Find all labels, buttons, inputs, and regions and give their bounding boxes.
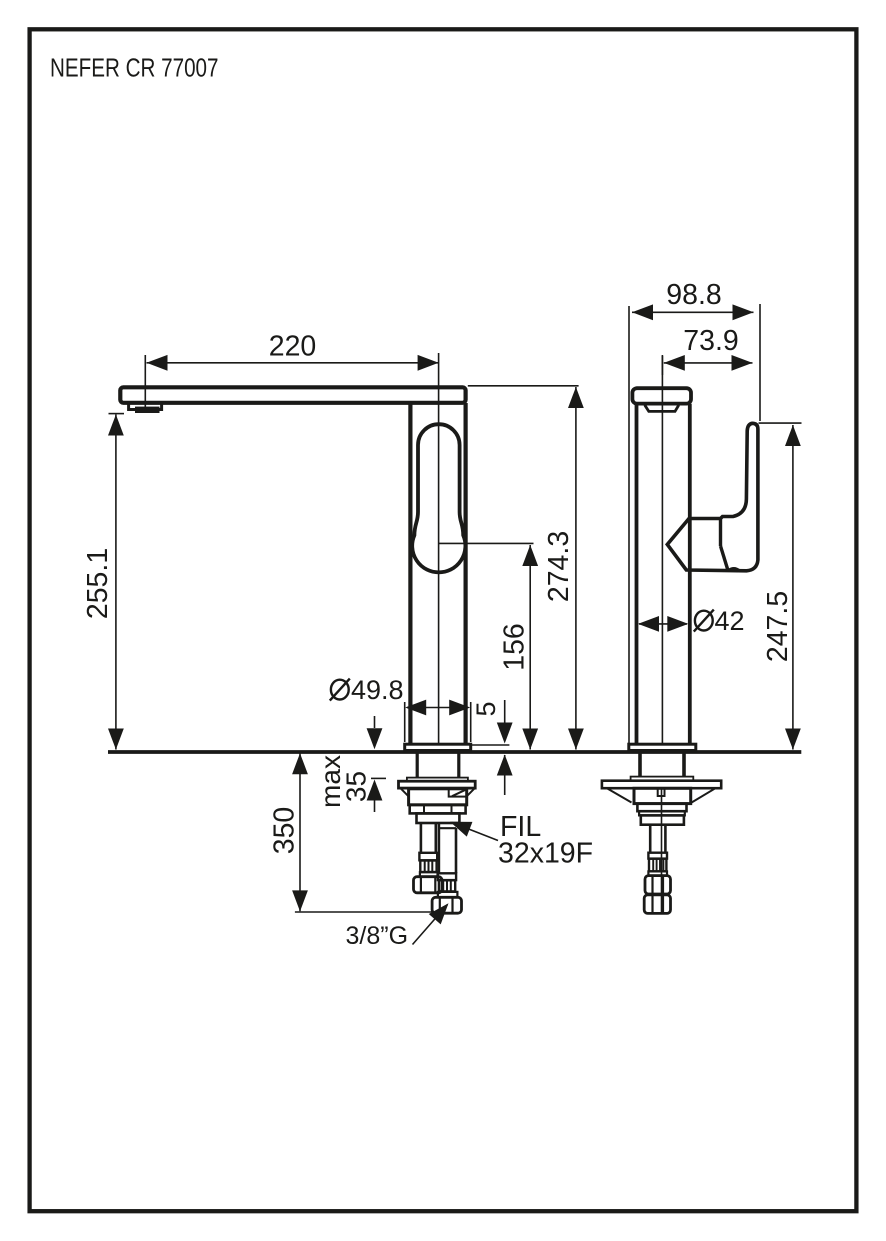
dimension 255.1 xyxy=(109,414,125,750)
aerator side view xyxy=(645,404,679,411)
svg-text:247.5: 247.5 xyxy=(762,591,794,662)
countertop line xyxy=(108,750,801,754)
hose nut 1 side xyxy=(645,876,671,894)
centerline front view xyxy=(438,353,440,750)
centerline side view xyxy=(661,356,663,751)
base flange front xyxy=(405,744,471,750)
svg-text:220: 220 xyxy=(269,331,317,363)
dimension 247.5 xyxy=(759,423,802,749)
washer plate front xyxy=(399,781,476,788)
left hose nut front xyxy=(414,877,443,893)
under-counter shank front xyxy=(416,754,419,778)
gasket side xyxy=(631,777,694,781)
handle lever side view xyxy=(667,423,758,571)
svg-text:98.8: 98.8 xyxy=(666,279,721,311)
svg-text:274.3: 274.3 xyxy=(543,531,575,602)
svg-text:49.8: 49.8 xyxy=(351,675,404,705)
dimension 73.9 xyxy=(662,355,752,375)
keyhole slot in body xyxy=(412,424,465,572)
gasket front xyxy=(407,778,468,782)
bracket tier2 front xyxy=(410,805,466,814)
dimension 274.3 xyxy=(468,386,579,750)
aerator under spout tip xyxy=(129,403,162,410)
right hose end nut front xyxy=(432,897,461,913)
handle inner lines xyxy=(719,519,722,547)
extension line 98.8 left xyxy=(628,306,630,745)
bracket tier3 front xyxy=(417,813,460,823)
under-counter shank side xyxy=(638,754,642,777)
dimension diameter 42 xyxy=(639,623,687,625)
dimension 5 xyxy=(472,700,510,795)
top cap side view xyxy=(632,388,691,403)
dimension 220 xyxy=(145,355,438,412)
svg-text:NEFER CR 77007: NEFER CR 77007 xyxy=(50,53,219,83)
dimension diameter 49.8 xyxy=(405,702,471,742)
hose nut 2 side xyxy=(644,895,670,914)
dimension max 35 xyxy=(371,716,386,812)
body column side xyxy=(635,404,639,744)
svg-text:5: 5 xyxy=(471,701,501,716)
bracket tiers side xyxy=(637,804,686,812)
supply tube side xyxy=(649,825,652,853)
svg-text:73.9: 73.9 xyxy=(683,325,738,357)
svg-text:255.1: 255.1 xyxy=(82,548,114,619)
svg-text:32x19F: 32x19F xyxy=(498,838,593,870)
svg-text:350: 350 xyxy=(269,807,301,855)
svg-text:42: 42 xyxy=(715,606,745,636)
extension line right (98.8/73.9) xyxy=(759,304,761,421)
spout horizontal body xyxy=(120,387,465,403)
mounting bracket front xyxy=(401,788,409,796)
svg-text:156: 156 xyxy=(499,623,531,671)
vertical body column front xyxy=(408,403,412,745)
base flange side xyxy=(629,744,696,750)
bracket side xyxy=(607,788,632,802)
left hose front xyxy=(420,823,423,853)
svg-text:35: 35 xyxy=(341,771,372,802)
dimension 350 xyxy=(295,754,436,913)
svg-text:3/8”G: 3/8”G xyxy=(346,922,409,950)
washer plate side xyxy=(602,781,721,789)
label 3/8"G xyxy=(413,905,448,945)
dimension 156 xyxy=(439,543,534,749)
right hose front xyxy=(438,823,441,873)
label FIL 32x19F xyxy=(452,823,498,841)
dimension 98.8 xyxy=(632,311,754,313)
